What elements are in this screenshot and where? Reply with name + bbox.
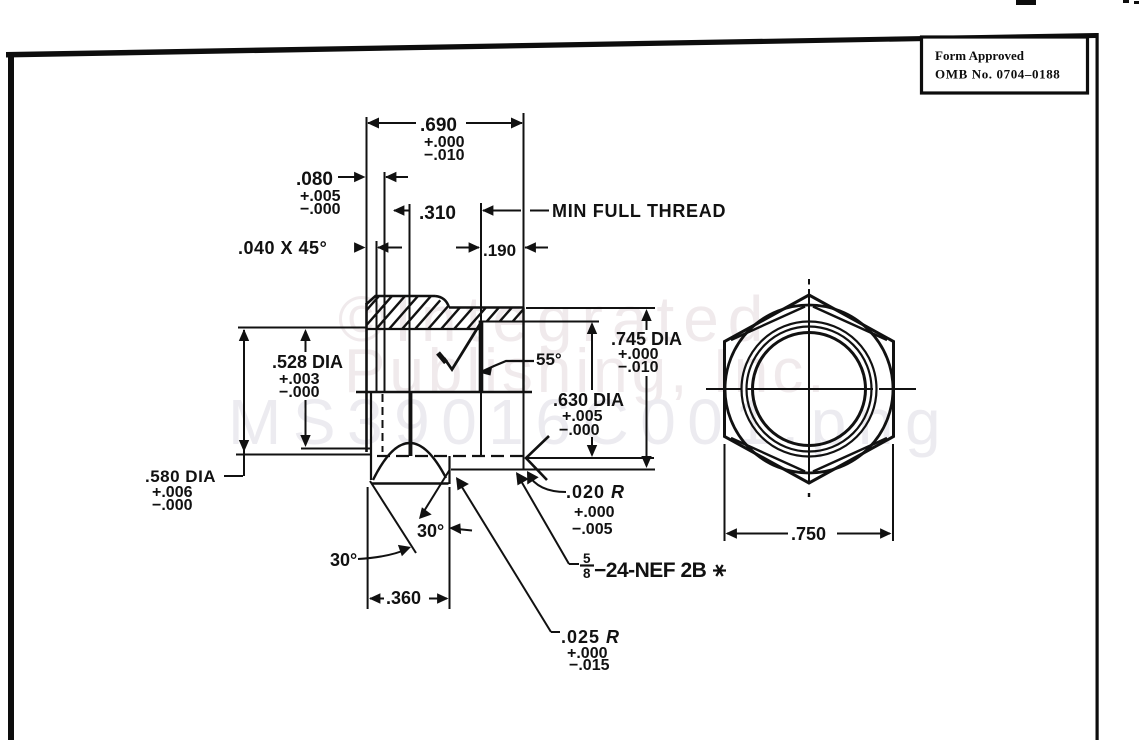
hex outline [725,295,894,483]
hex vertical centerline [808,279,810,285]
bore circle inner [753,333,866,446]
dim .630 lines [526,457,654,459]
section hatching [344,288,555,336]
30 deg arc leader 1 [358,549,407,559]
svg-text:.080: .080 [296,169,333,190]
30 deg construction line B [421,470,450,516]
svg-text:−.000: −.000 [559,422,600,439]
part outline: left edge [365,303,368,452]
thread relief thick line [479,321,484,394]
dim .690 line [368,122,416,124]
ext line x376 chamfer [376,241,378,392]
hex chamfer cut line top-left [731,307,805,341]
svg-text:OMB No. 0704–0188: OMB No. 0704–0188 [935,67,1060,82]
dim 55 leader [482,361,534,372]
svg-text:30°: 30° [330,550,357,570]
bottom of threaded portion / ext line [451,469,655,471]
hex chamfer cut line bottom-right [813,438,887,472]
lower left edge second line [370,392,372,480]
centerline of section [356,391,532,393]
part outline: top-left chamfer [366,296,376,305]
svg-text:−.000: −.000 [300,201,341,218]
svg-text:.750: .750 [791,524,826,544]
svg-text:−.015: −.015 [569,657,610,674]
ext line x523 [523,113,525,308]
big open arrowhead thread pointer [526,436,549,480]
right edge lower [523,392,525,470]
svg-text:.040 X 45°: .040 X 45° [238,238,327,258]
svg-text:.690: .690 [420,115,457,136]
30 deg construction line A [370,481,416,553]
dim .750 line [727,533,788,535]
svg-text:−24-NEF 2B: −24-NEF 2B [594,559,707,582]
dim .745 lines [526,307,655,309]
hex outer circle [725,305,893,473]
dim .025R leader [551,631,560,633]
hex horizontal centerline [706,388,741,390]
dim .360 ext lines [367,487,369,609]
ext line x409 [409,204,411,456]
svg-text:Form Approved: Form Approved [935,48,1025,63]
dim .580 lines [236,454,371,456]
dim .020R leader [528,474,566,492]
lower right corner vertical [448,456,450,484]
svg-text:−.010: −.010 [424,147,465,164]
hidden thread dashed line [377,455,528,457]
thread circle outer [742,322,877,457]
svg-text:−.010: −.010 [618,359,659,376]
part outline: top surface right [449,306,524,309]
svg-text:8: 8 [583,566,591,581]
part outline: right edge upper [522,308,524,393]
lower mid vertical [410,392,412,456]
page border top [6,33,1096,58]
form approved box [922,37,1088,93]
hex chamfer cut line top-right [813,307,887,341]
svg-text:.360: .360 [386,588,421,608]
asterisk mark [713,569,726,571]
thread end thin vertical lower [480,393,482,456]
dim .750 ext lines [724,444,726,541]
dim .040x45 leader [356,247,363,249]
hex chamfer cut line bottom-left [731,438,805,472]
part outline: shoulder radius [435,296,449,308]
thread major line right / hatch bottom right [481,321,599,323]
ext line x366 upper [366,117,368,303]
bore top line / hatch bottom left [366,328,481,330]
NEF thread leader [517,474,569,564]
svg-text:.025 R: .025 R [561,627,620,647]
top right corner marks [1123,0,1129,3]
dim .310 arrow [394,210,409,212]
ext line x481 upper thin [480,203,482,321]
dim .080 leader [338,176,363,178]
svg-text:−.000: −.000 [279,384,320,401]
page border right [1096,33,1099,740]
svg-text:30°: 30° [417,521,444,541]
dim .360 line [370,598,384,600]
svg-text:.020 R: .020 R [566,482,625,502]
hex silhouette bottom edge [372,482,449,485]
top edge dash mark [1016,0,1036,5]
svg-text:.630 DIA: .630 DIA [553,390,624,410]
svg-text:+.000: +.000 [574,504,615,521]
svg-text:−.000: −.000 [152,497,193,514]
svg-text:.190: .190 [483,241,516,260]
part outline: top surface left [376,295,436,298]
hex chamfer arc side view [373,443,446,480]
page border left [8,52,14,740]
svg-text:55°: 55° [536,350,562,369]
svg-text:.528 DIA: .528 DIA [272,352,343,372]
thread circle middle [747,327,872,452]
ext line x384 [384,172,386,392]
surface finish checkmark [438,353,446,363]
30 deg arrow 2 [452,529,472,531]
hidden chamfer dashed vertical [382,394,384,452]
svg-text:.310: .310 [419,203,456,224]
dim .528 lines [238,327,366,329]
dim .190 arrows [456,247,479,249]
svg-text:MIN FULL THREAD: MIN FULL THREAD [552,201,726,221]
fraction bar [580,564,594,566]
svg-text:5: 5 [583,551,591,566]
min full thread leader [483,210,521,212]
svg-text:−.005: −.005 [572,521,613,538]
